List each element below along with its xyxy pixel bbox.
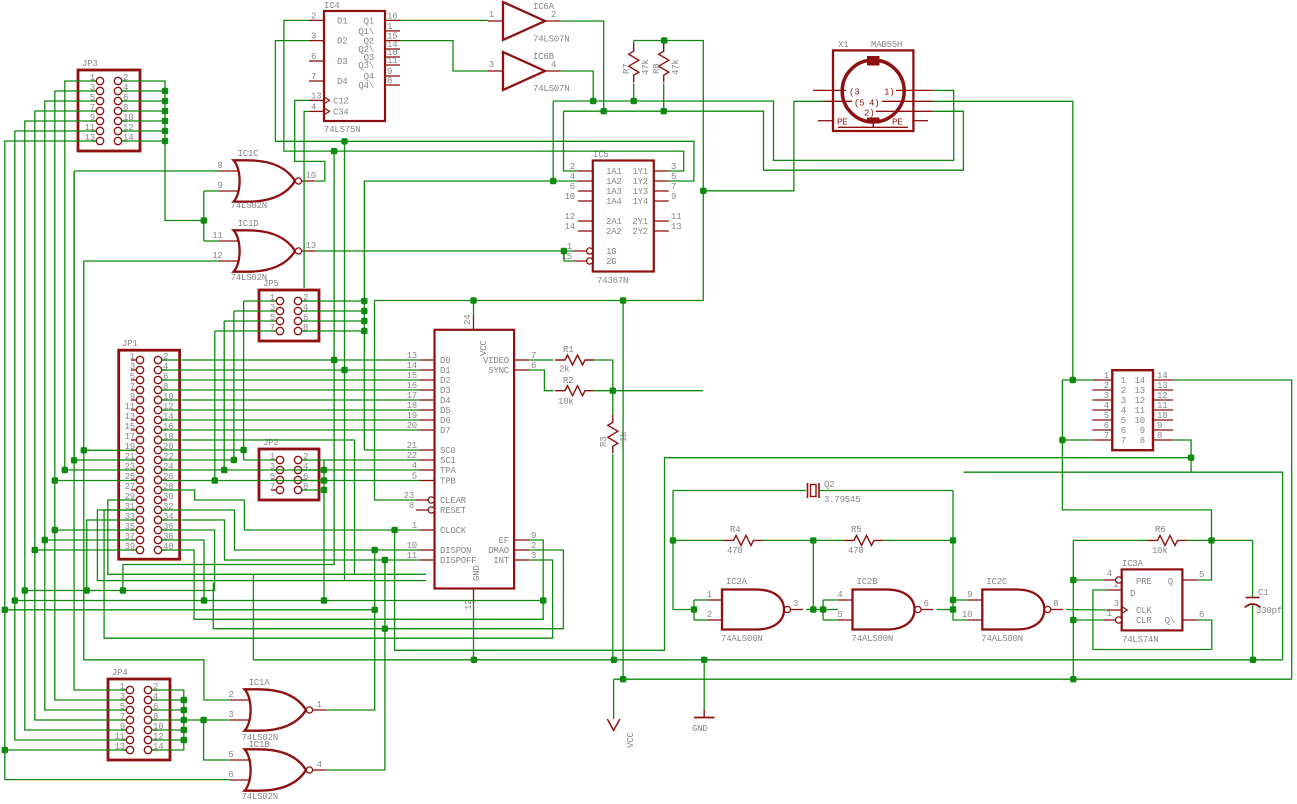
svg-text:D2: D2 xyxy=(440,376,450,386)
wire R2 right / node / line right xyxy=(593,390,703,392)
wire DMAO row xyxy=(213,550,563,629)
flip-flop IC3A 74LS74N xyxy=(1104,559,1204,645)
power VCC symbol xyxy=(607,719,636,748)
svg-text:9: 9 xyxy=(217,181,222,191)
svg-text:2: 2 xyxy=(1104,381,1109,391)
wire L2 left riser to IC5 1A1 xyxy=(564,111,578,171)
junction on D0 row xyxy=(331,357,337,363)
svg-text:1): 1) xyxy=(884,88,894,98)
svg-text:D1: D1 xyxy=(440,366,450,376)
svg-text:PE: PE xyxy=(892,118,902,128)
svg-text:SC0: SC0 xyxy=(440,446,456,456)
connector JP2 xyxy=(259,438,319,500)
wire DISPON riser / IC1A out riser xyxy=(326,550,374,710)
svg-text:Q1: Q1 xyxy=(364,16,374,26)
svg-text:D4: D4 xyxy=(337,77,347,87)
svg-text:9: 9 xyxy=(1157,421,1162,431)
svg-text:74ALS00N: 74ALS00N xyxy=(981,634,1023,644)
junction IC2C in1 xyxy=(950,597,956,603)
svg-text:11: 11 xyxy=(387,56,397,66)
svg-text:7: 7 xyxy=(270,482,275,492)
wire row460 left segment xyxy=(74,459,136,461)
junction row450 xyxy=(81,447,87,453)
wire JP1 pin34 to DISPOFF xyxy=(162,520,420,560)
wire row 609.8 to DISPON riser xyxy=(5,609,375,611)
svg-text:74367N: 74367N xyxy=(597,276,628,286)
junction pin1 row xyxy=(1070,377,1076,383)
wire JP3 right bus xyxy=(122,81,204,221)
junction R1/R2/R3 xyxy=(610,388,616,394)
wire C1 leads xyxy=(1252,540,1254,597)
junction GND symbol xyxy=(701,657,707,663)
wire JP1 to D7 row xyxy=(162,429,420,431)
NOR gate IC1D 74LS02N xyxy=(212,219,316,283)
buffer IC6A 74LS07N xyxy=(488,2,569,45)
junction R4/R5 xyxy=(810,537,816,543)
svg-text:8: 8 xyxy=(1053,599,1058,609)
svg-text:DISPON: DISPON xyxy=(440,546,471,556)
connector X1 MAB55H xyxy=(813,40,933,131)
svg-text:R8: R8 xyxy=(652,64,662,74)
wire IC6B out riser xyxy=(560,71,593,101)
svg-text:D1: D1 xyxy=(337,16,347,26)
wire VCC arrow stem xyxy=(613,679,615,719)
svg-text:SC1: SC1 xyxy=(440,456,456,466)
svg-text:2: 2 xyxy=(707,610,712,620)
junction x4.8 vertical xyxy=(2,607,8,613)
svg-text:14: 14 xyxy=(1157,371,1167,381)
wire JP1 row550 left xyxy=(35,549,137,551)
junction JP5 pin5 riser xyxy=(221,467,227,473)
svg-text:IC6A: IC6A xyxy=(533,2,555,12)
svg-text:8: 8 xyxy=(1157,431,1162,441)
svg-text:3: 3 xyxy=(1121,396,1126,406)
wire crystal row xyxy=(673,490,806,492)
svg-text:8: 8 xyxy=(409,501,414,511)
svg-text:3: 3 xyxy=(228,710,233,720)
wire JP1 pin38 riser xyxy=(162,540,204,601)
wire JP1 pin32 to DISPON xyxy=(162,510,420,550)
svg-text:SYNC: SYNC xyxy=(488,366,510,376)
junction D0 riser top xyxy=(331,148,337,154)
wire JP4 right bus xyxy=(152,690,184,750)
wire IC1C pin8 riser to JP4-1 xyxy=(74,171,126,690)
svg-text:2A2: 2A2 xyxy=(606,227,622,237)
svg-text:1Y1: 1Y1 xyxy=(632,167,648,177)
wire IC2A input tie xyxy=(693,600,695,620)
resistor R8 47k xyxy=(652,43,681,82)
crystal Q2 3.79545 xyxy=(808,480,861,505)
wire JP5 right bus xyxy=(363,181,365,450)
svg-text:PE: PE xyxy=(837,118,847,128)
svg-text:7: 7 xyxy=(1121,436,1126,446)
svg-text:IC1A: IC1A xyxy=(249,678,271,688)
wire R4 R5 row xyxy=(673,539,724,541)
junction JP5 bus xyxy=(361,308,367,314)
junction JP4 bus xyxy=(181,717,187,723)
svg-text:13: 13 xyxy=(1135,386,1145,396)
wire IC2B out xyxy=(937,609,953,611)
NAND gate IC2A 74ALS00N xyxy=(707,577,803,644)
svg-text:3: 3 xyxy=(311,32,316,42)
buffer IC6B 74LS07N xyxy=(488,52,569,94)
svg-text:VIDEO: VIDEO xyxy=(483,356,509,366)
wire JP5 right pin xyxy=(302,310,365,312)
junction JP4 bus xyxy=(181,707,187,713)
junction DISPOFF riser xyxy=(382,557,388,563)
resistor R6 10k xyxy=(1148,525,1187,556)
svg-text:12: 12 xyxy=(565,212,575,222)
svg-text:3: 3 xyxy=(130,362,135,372)
svg-text:CLK: CLK xyxy=(1136,606,1152,616)
svg-text:D0: D0 xyxy=(440,356,450,366)
resistor R4 470 xyxy=(724,525,763,556)
junction JP3 bus xyxy=(162,88,168,94)
svg-text:2: 2 xyxy=(1114,580,1119,590)
svg-text:11: 11 xyxy=(1157,401,1167,411)
svg-text:4: 4 xyxy=(1121,406,1126,416)
svg-text:C12: C12 xyxy=(333,96,349,106)
wire X1 pin4 to SV1 pin1 xyxy=(933,101,1073,380)
wire R6 left segment xyxy=(1073,539,1147,541)
wire crystal left riser xyxy=(673,491,694,610)
wire JP4 right pin xyxy=(152,709,184,711)
junction JP3 bus xyxy=(162,128,168,134)
junction JP5 pin7 riser xyxy=(212,477,218,483)
NOR gate IC1A 74LS02N xyxy=(228,678,326,743)
wire JP5 pin7 riser xyxy=(215,330,276,332)
svg-text:DISPOFF: DISPOFF xyxy=(440,556,476,566)
svg-text:11: 11 xyxy=(212,231,222,241)
wire row574.3 from JP1 pin29 xyxy=(108,500,426,574)
junction on D1 row xyxy=(341,367,347,373)
wire JP1 row540 left xyxy=(45,539,137,541)
svg-text:Q3\: Q3\ xyxy=(358,61,374,71)
svg-text:7: 7 xyxy=(671,182,676,192)
wire row460 segments / SC1 xyxy=(162,459,234,461)
svg-text:PRE: PRE xyxy=(1136,577,1152,587)
wire IC4 Q1 to IC6A in xyxy=(400,19,488,21)
wire CLOCK net from Q line xyxy=(395,458,1192,651)
junction JP3 bus xyxy=(162,118,168,124)
svg-text:1Y2: 1Y2 xyxy=(632,177,648,187)
svg-text:2): 2) xyxy=(864,108,874,118)
wire IC1D pin12 riser line to IC1A pin2 xyxy=(84,660,230,700)
wire JP1 to D1 row xyxy=(162,369,420,371)
svg-text:47k: 47k xyxy=(641,59,651,75)
svg-text:MAB55H: MAB55H xyxy=(871,40,902,50)
svg-text:5: 5 xyxy=(837,610,842,620)
junction 1G/2G xyxy=(561,248,567,254)
svg-text:Q\: Q\ xyxy=(1165,616,1175,626)
connector JP5 xyxy=(259,279,319,341)
svg-text:IC2C: IC2C xyxy=(986,577,1008,587)
wire GND bus right riser xyxy=(1191,472,1283,660)
svg-text:5: 5 xyxy=(130,372,135,382)
junction R6 right / C1 xyxy=(1208,537,1214,543)
svg-text:3: 3 xyxy=(1114,599,1119,609)
svg-text:6: 6 xyxy=(1104,421,1109,431)
svg-text:47k: 47k xyxy=(671,59,681,75)
wire JP1 to D3 row xyxy=(162,389,420,391)
junction x54.8 xyxy=(52,527,58,533)
junction on EF riser xyxy=(540,597,546,603)
wire VCC to CLEAR xyxy=(375,301,417,501)
svg-text:4: 4 xyxy=(837,590,842,600)
junction x64.8 xyxy=(62,467,68,473)
wire IC1C pin8 net xyxy=(74,170,219,172)
wire riser to IC1C-9 and IC1D-11 xyxy=(203,191,205,241)
svg-text:1: 1 xyxy=(387,22,392,32)
svg-text:330pf: 330pf xyxy=(1256,606,1282,616)
wire Q\ to D loop xyxy=(1093,590,1212,650)
junction JP2 bus xyxy=(321,487,327,493)
svg-text:6: 6 xyxy=(311,52,316,62)
svg-text:27: 27 xyxy=(125,482,135,492)
junction DISPON riser xyxy=(372,547,378,553)
wire SV1 pin8 to GND bus xyxy=(963,440,1191,472)
junction JP3 bus xyxy=(162,98,168,104)
svg-text:1G: 1G xyxy=(606,247,616,257)
junction x44.8 xyxy=(42,537,48,543)
wire JP4 net to IC1A pin3 and IC1B pin5 xyxy=(184,719,230,721)
svg-text:12: 12 xyxy=(464,600,474,610)
junction xyxy=(810,606,816,612)
svg-text:24: 24 xyxy=(463,315,473,325)
svg-text:10: 10 xyxy=(962,610,972,620)
svg-text:D7: D7 xyxy=(440,426,450,436)
wire SC0 from JP5 bus xyxy=(364,449,419,451)
svg-text:11: 11 xyxy=(1135,406,1145,416)
IC IC4 74LS75N xyxy=(309,1,400,135)
wire SV1 pin7 feed xyxy=(1062,439,1092,441)
svg-text:74LS02N: 74LS02N xyxy=(231,201,267,211)
junction row460 xyxy=(71,457,77,463)
wire JP3-7 to JP4-7 xyxy=(35,111,127,720)
junction pin7 row xyxy=(1059,437,1065,443)
svg-text:5: 5 xyxy=(228,750,233,760)
junction x14.8 vertical xyxy=(12,597,18,603)
svg-text:2Y2: 2Y2 xyxy=(632,227,648,237)
svg-text:6: 6 xyxy=(1199,610,1204,620)
svg-text:74ALS00N: 74ALS00N xyxy=(852,634,894,644)
junction PRE xyxy=(1070,577,1076,583)
svg-text:Q: Q xyxy=(1168,577,1173,587)
svg-text:R4: R4 xyxy=(730,525,740,535)
svg-text:D6: D6 xyxy=(440,416,450,426)
svg-text:13: 13 xyxy=(671,222,681,232)
wire IC1B pin6 row xyxy=(5,779,230,781)
junction JP5 bus xyxy=(361,298,367,304)
junction x34.8 xyxy=(32,547,38,553)
junction JP5 bus xyxy=(361,318,367,324)
wire JP5 pin5 riser xyxy=(224,320,276,322)
junction JP2 bus xyxy=(321,467,327,473)
wire JP3-9 to JP4-9 xyxy=(25,121,127,730)
wire R1 right to node xyxy=(593,360,612,391)
svg-text:2: 2 xyxy=(1121,386,1126,396)
junction JP4 bus xyxy=(181,727,187,733)
junction JP4 pin13 xyxy=(2,747,8,753)
wire JP4 right pin xyxy=(152,719,184,721)
svg-text:9: 9 xyxy=(967,590,972,600)
wire row 600.5 xyxy=(15,600,543,602)
wire JP3 right pin xyxy=(122,140,165,142)
wire JP3 right pin xyxy=(122,100,165,102)
svg-text:IC1D: IC1D xyxy=(238,219,259,229)
wire L1 net to X1 pin1 xyxy=(553,90,954,160)
wire VCC rail (bus2) xyxy=(614,678,1292,680)
svg-text:Q4\: Q4\ xyxy=(358,81,374,91)
svg-text:8: 8 xyxy=(217,161,222,171)
connector JP3 xyxy=(78,59,140,151)
junction R3 bottom xyxy=(611,657,617,663)
wire JP5 right pin xyxy=(302,300,365,302)
svg-text:C34: C34 xyxy=(333,107,349,117)
svg-text:R2: R2 xyxy=(563,376,573,386)
NAND gate IC2B 74ALS00N xyxy=(837,577,933,644)
svg-text:4: 4 xyxy=(1107,569,1112,579)
svg-text:JP3: JP3 xyxy=(82,59,98,69)
wire JP1 to D0 row xyxy=(162,359,420,361)
svg-text:R5: R5 xyxy=(851,525,861,535)
svg-text:D3: D3 xyxy=(440,386,450,396)
svg-text:14: 14 xyxy=(1135,376,1145,386)
svg-text:16: 16 xyxy=(387,11,397,21)
wire row564.5 from D0 riser xyxy=(123,360,334,591)
wire Q net: SV1 pin1 to R6 right xyxy=(1062,380,1211,540)
wire riser to D1 row xyxy=(344,141,346,370)
svg-text:14: 14 xyxy=(565,222,575,232)
wire JP3 right pin xyxy=(122,120,165,122)
svg-text:VCC: VCC xyxy=(626,732,636,748)
junction VCC rail xyxy=(1070,676,1076,682)
wire JP4 right pin xyxy=(152,729,184,731)
wire JP5 right pin xyxy=(302,320,365,322)
junction x24.8 vertical xyxy=(22,587,28,593)
svg-text:12: 12 xyxy=(1135,396,1145,406)
wire JP3 right pin xyxy=(122,130,165,132)
svg-text:4: 4 xyxy=(317,760,322,770)
wire JP2 right pin xyxy=(302,489,324,491)
junction JP4 bus xyxy=(181,737,187,743)
wire JP1 pin28 to CLOCK xyxy=(162,490,420,530)
svg-text:13: 13 xyxy=(311,91,321,101)
junction IC2B out xyxy=(950,606,956,612)
svg-text:5: 5 xyxy=(1199,570,1204,580)
junction VCC rail xyxy=(620,676,626,682)
svg-text:(5: (5 xyxy=(854,98,864,108)
junction CLOCK riser xyxy=(391,527,397,533)
svg-text:D: D xyxy=(1130,589,1135,599)
junction IC GND pin xyxy=(471,657,477,663)
wire JP1 pin33 to row590 xyxy=(87,520,137,591)
resistor R7 47k xyxy=(622,43,651,82)
svg-text:IC1B: IC1B xyxy=(249,740,271,750)
wire JP1 to D2 row xyxy=(162,379,420,381)
svg-text:TPB: TPB xyxy=(440,477,456,487)
wire row450 left segment xyxy=(84,449,137,451)
wire JP5 pin3 riser xyxy=(234,310,276,312)
wire riser x84 to JP1 row450 and GND bus xyxy=(83,261,85,660)
resistor R3 1k xyxy=(599,414,629,453)
wire JP3 right pin xyxy=(122,110,165,112)
wire JP5 pin1 riser to row450 JP2 pin1 xyxy=(244,300,277,302)
junction row590 xyxy=(120,587,126,593)
resistor R2 10k xyxy=(555,376,594,407)
wire JP4 right pin xyxy=(152,699,184,701)
wire row450 pin20 segment xyxy=(162,449,244,451)
svg-text:TPA: TPA xyxy=(440,466,456,476)
svg-text:R3: R3 xyxy=(599,437,609,447)
svg-text:1: 1 xyxy=(1104,371,1109,381)
IC U? video chip xyxy=(404,315,537,610)
svg-text:5: 5 xyxy=(1104,411,1109,421)
svg-text:10: 10 xyxy=(1135,416,1145,426)
svg-text:GND: GND xyxy=(692,724,708,734)
wire JP2 right pin xyxy=(302,469,324,471)
junction VCC riser xyxy=(700,188,706,194)
svg-text:1Y3: 1Y3 xyxy=(632,187,648,197)
svg-text:11: 11 xyxy=(671,212,681,222)
junction row600 xyxy=(201,597,207,603)
svg-text:10k: 10k xyxy=(1152,546,1168,556)
wire JP1 to D5 row xyxy=(162,409,420,411)
svg-text:1A3: 1A3 xyxy=(606,187,622,197)
svg-text:12: 12 xyxy=(1157,391,1167,401)
svg-text:15: 15 xyxy=(125,422,135,432)
junction JP2 bus bottom xyxy=(321,597,327,603)
wire Q to R6 right xyxy=(1197,540,1211,580)
connector JP1 xyxy=(119,339,180,559)
svg-text:CLR: CLR xyxy=(1136,616,1152,626)
wire JP4 right pin xyxy=(152,739,184,741)
svg-text:3: 3 xyxy=(489,60,494,70)
svg-text:7: 7 xyxy=(1104,431,1109,441)
wire SYNC to R2 xyxy=(529,370,553,391)
junction L1 xyxy=(590,98,596,104)
IC IC5 74367N xyxy=(562,150,682,286)
svg-text:1A4: 1A4 xyxy=(606,197,622,207)
wire GND bus (bus1) xyxy=(253,659,1282,661)
wire IC5 1A2 row from JP5 bus xyxy=(364,180,578,182)
junction R7 bottom on L1 xyxy=(631,98,637,104)
wire JP5 right pin xyxy=(302,330,365,332)
svg-text:6: 6 xyxy=(1121,426,1126,436)
svg-text:8: 8 xyxy=(1140,436,1145,446)
svg-text:EF: EF xyxy=(499,536,509,546)
NOR gate IC1C 74LS02N xyxy=(217,149,316,211)
svg-text:1A1: 1A1 xyxy=(606,167,622,177)
svg-text:8: 8 xyxy=(387,76,392,86)
NOR gate IC1B 74LS02N xyxy=(228,740,326,802)
wire INT row xyxy=(104,510,552,638)
svg-text:2A1: 2A1 xyxy=(606,217,622,227)
wire VCC drop to VCC rail xyxy=(622,301,624,680)
svg-text:9: 9 xyxy=(130,392,135,402)
svg-text:IC2B: IC2B xyxy=(857,577,879,587)
svg-text:2: 2 xyxy=(228,690,233,700)
connector SV1 (right 14-pin) xyxy=(1092,370,1173,450)
wire riser x74 to JP1 row460 xyxy=(73,171,75,460)
wire JP2 right pin xyxy=(302,480,324,482)
svg-text:VCC: VCC xyxy=(479,340,489,356)
wire row480 TPB xyxy=(55,480,137,482)
svg-text:9: 9 xyxy=(1140,426,1145,436)
svg-text:7: 7 xyxy=(311,72,316,82)
wire JP2 right bus xyxy=(323,460,325,601)
wire IC1D out to IC5 1G 2G xyxy=(315,250,574,252)
